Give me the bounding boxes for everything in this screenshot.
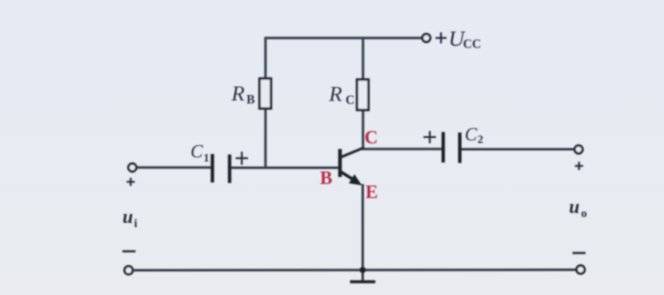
svg-text:B: B xyxy=(247,93,255,107)
terminal input top xyxy=(128,164,136,172)
wire collector to C2 xyxy=(362,148,442,151)
svg-text:o: o xyxy=(581,206,587,220)
label + at C1 xyxy=(236,152,248,165)
wire bottom rail xyxy=(133,269,577,272)
label RB xyxy=(231,82,255,107)
svg-text:C: C xyxy=(465,126,478,146)
terminal +Ucc xyxy=(422,34,430,42)
svg-text:R: R xyxy=(328,82,342,106)
node junction dot emitter-bottom rail xyxy=(360,267,366,273)
svg-text:R: R xyxy=(231,82,245,106)
label + input xyxy=(127,178,135,186)
svg-text:E: E xyxy=(366,183,378,203)
svg-text:u: u xyxy=(569,197,580,218)
label C1 xyxy=(191,143,210,165)
label + at C2 xyxy=(423,131,436,143)
wire RB branch bottom xyxy=(264,109,267,169)
label minus input xyxy=(123,250,136,252)
svg-text:1: 1 xyxy=(204,153,210,165)
label ui xyxy=(123,207,139,230)
terminal input bottom xyxy=(125,266,133,274)
wire RC branch top xyxy=(362,37,365,80)
label C2 xyxy=(465,126,484,147)
terminal output top xyxy=(575,145,583,153)
label uo xyxy=(569,197,587,220)
svg-text:2: 2 xyxy=(478,134,484,146)
wire RB branch top xyxy=(264,37,267,79)
resistor RB xyxy=(260,79,272,109)
svg-text:C: C xyxy=(346,93,355,107)
wire C2 to output terminal xyxy=(461,148,575,151)
transistor Q1 base bar xyxy=(338,149,342,177)
label minus output xyxy=(573,252,586,254)
svg-text:B: B xyxy=(320,169,332,189)
wire input to C1 xyxy=(137,166,212,169)
terminal output bottom xyxy=(577,266,585,274)
wire RC branch bottom (to collector node C) xyxy=(362,110,365,149)
wire emitter vertical xyxy=(361,184,364,270)
resistor RC xyxy=(357,80,369,111)
capacitor C1 plates xyxy=(212,154,229,183)
wire C1 to base xyxy=(231,167,340,170)
svg-text:CC: CC xyxy=(463,37,481,51)
label +Ucc xyxy=(436,26,482,51)
svg-text:u: u xyxy=(123,207,134,228)
transistor Q1 collector stroke xyxy=(340,148,364,158)
ground xyxy=(350,280,375,283)
label RC xyxy=(328,82,355,107)
capacitor C2 plates xyxy=(443,132,460,163)
wire ground stem xyxy=(361,270,364,282)
svg-text:C: C xyxy=(191,143,204,163)
wire top rail xyxy=(265,37,423,40)
transistor Q1 emitter stroke with arrow xyxy=(339,170,362,186)
label + output xyxy=(575,162,583,170)
svg-text:C: C xyxy=(365,129,378,149)
